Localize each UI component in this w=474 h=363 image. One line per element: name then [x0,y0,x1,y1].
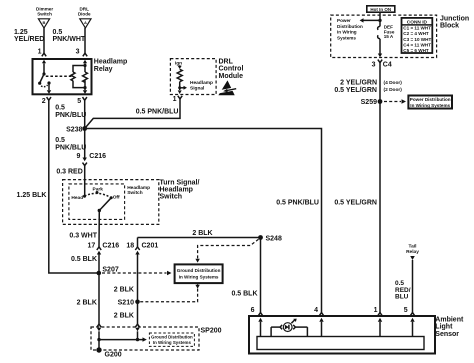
svg-text:0.5: 0.5 [55,137,65,144]
svg-text:0.3 RED: 0.3 RED [56,168,82,175]
svg-text:Ign: Ign [175,61,182,67]
svg-text:In Wiring Systems: In Wiring Systems [153,340,192,345]
svg-text:Tail: Tail [409,244,417,250]
svg-text:S238: S238 [66,126,82,133]
svg-text:In Wiring: In Wiring [337,30,357,35]
svg-text:Headlamp: Headlamp [94,59,127,66]
svg-text:6: 6 [251,307,255,314]
svg-text:0.5: 0.5 [395,280,404,287]
svg-text:0.5 PNK/BLU: 0.5 PNK/BLU [136,108,179,115]
svg-text:1: 1 [38,49,42,56]
svg-text:DRL: DRL [219,58,234,65]
svg-text:15 A: 15 A [384,34,394,39]
svg-text:S210: S210 [118,299,134,306]
svg-text:C5 = 6 WHT: C5 = 6 WHT [403,48,429,53]
svg-text:18: 18 [126,243,134,250]
svg-text:C216: C216 [89,153,106,160]
svg-text:Module: Module [219,73,244,80]
svg-text:5: 5 [404,307,408,314]
svg-text:0.3 WHT: 0.3 WHT [69,233,97,240]
svg-text:Relay: Relay [94,66,113,73]
svg-text:5: 5 [77,98,81,105]
svg-text:1.25: 1.25 [14,29,28,36]
svg-text:Headlamp: Headlamp [190,80,213,86]
svg-text:S259: S259 [361,99,377,106]
svg-text:PNK/BLU: PNK/BLU [55,145,86,152]
svg-text:Systems: Systems [337,35,356,40]
svg-text:C201: C201 [142,243,159,250]
svg-text:Ambient: Ambient [435,316,464,323]
svg-text:Off: Off [113,194,120,200]
svg-text:1: 1 [173,96,177,103]
svg-text:SP200: SP200 [201,327,222,334]
svg-text:0.5: 0.5 [53,29,63,36]
svg-text:Ground Distribution: Ground Distribution [151,335,193,340]
svg-text:0.5: 0.5 [55,104,65,111]
svg-text:Signal: Signal [190,86,204,92]
svg-text:C1 = 11 WHT: C1 = 11 WHT [403,26,431,31]
svg-text:Distribution: Distribution [337,24,363,29]
svg-text:Sensor: Sensor [435,331,459,338]
svg-text:Headlamp: Headlamp [160,186,193,193]
svg-text:17: 17 [88,243,96,250]
svg-text:(4 Door): (4 Door) [384,80,403,86]
svg-text:2 YEL/GRN: 2 YEL/GRN [340,80,377,87]
svg-text:2 BLK: 2 BLK [192,230,212,237]
svg-text:Switch: Switch [127,190,143,196]
svg-text:In Wiring Systems: In Wiring Systems [179,274,219,279]
svg-text:2: 2 [42,98,46,105]
svg-text:In Wiring Systems: In Wiring Systems [410,103,450,108]
svg-text:Diode: Diode [78,12,91,17]
svg-text:Switch: Switch [160,193,183,200]
svg-text:S248: S248 [266,236,282,243]
svg-text:C2 = 4 WHT: C2 = 4 WHT [403,31,429,36]
svg-text:Control: Control [219,66,244,73]
svg-text:Power: Power [337,18,351,23]
svg-text:0.5 PNK/BLU: 0.5 PNK/BLU [276,199,319,206]
svg-text:Ground Distribution: Ground Distribution [177,268,221,273]
svg-text:YEL/RED: YEL/RED [14,36,44,43]
svg-text:2 BLK: 2 BLK [77,299,97,306]
svg-text:Switch: Switch [37,12,52,17]
svg-text:C4: C4 [383,61,392,68]
svg-text:4: 4 [314,307,318,314]
svg-text:3: 3 [372,61,376,68]
svg-text:0.5 BLK: 0.5 BLK [71,256,97,263]
svg-text:Power Distribution: Power Distribution [410,97,451,102]
svg-text:2 BLK: 2 BLK [114,287,134,294]
svg-text:PNK/BLU: PNK/BLU [55,112,86,119]
svg-text:PNK/WHT: PNK/WHT [53,36,86,43]
svg-text:9: 9 [76,153,80,160]
svg-text:G200: G200 [105,352,122,359]
svg-text:0.5 YEL/GRN: 0.5 YEL/GRN [334,87,377,94]
svg-text:A: A [84,20,87,25]
svg-text:Headlamp: Headlamp [127,185,150,191]
svg-text:0.5 YEL/GRN: 0.5 YEL/GRN [334,199,377,206]
svg-text:1: 1 [374,307,378,314]
svg-text:Block: Block [440,22,459,29]
svg-text:Light: Light [435,324,453,331]
svg-text:C3 = 10 WHT: C3 = 10 WHT [403,37,431,42]
svg-text:1.25 BLK: 1.25 BLK [17,192,47,199]
svg-text:2 BLK: 2 BLK [114,313,134,320]
svg-text:Turn Signal/: Turn Signal/ [160,179,200,186]
svg-text:B: B [43,20,46,25]
svg-text:(2 Door): (2 Door) [384,87,403,93]
svg-text:0.5 BLK: 0.5 BLK [231,291,257,298]
svg-text:3: 3 [76,49,80,56]
svg-text:Relay: Relay [406,249,419,255]
svg-text:C4 = 11 WHT: C4 = 11 WHT [403,42,431,47]
svg-text:Hot In ON: Hot In ON [370,7,391,12]
svg-text:Head: Head [71,195,83,201]
svg-text:C216: C216 [102,243,119,250]
svg-text:BLU: BLU [395,294,409,301]
